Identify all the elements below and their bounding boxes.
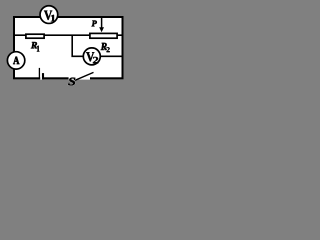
switch gap in bottom wire <box>69 76 90 79</box>
label R2 <box>101 43 107 50</box>
voltmeter V2 <box>83 48 100 65</box>
wire: potentiometer slider stem <box>101 17 103 29</box>
battery short thick plate <box>42 73 44 79</box>
circuit outer loop (wire rectangle) <box>14 17 123 78</box>
label S <box>68 78 75 86</box>
battery gap in bottom wire <box>40 76 42 79</box>
battery long thin plate <box>38 68 40 79</box>
ammeter A <box>7 52 24 69</box>
wire: V2 branch (down from junction then right to right border) <box>72 35 122 56</box>
label P <box>92 21 97 27</box>
resistor R1 <box>26 34 44 38</box>
ammeter A label <box>13 57 19 64</box>
voltmeter V1 <box>40 6 58 24</box>
resistor R2 (rheostat track) <box>90 33 117 38</box>
slider arrowhead <box>99 27 104 32</box>
label R1 <box>31 42 37 48</box>
voltmeter V1 label <box>44 11 52 20</box>
background <box>0 0 129 99</box>
wire: middle horizontal branch <box>14 34 122 36</box>
voltmeter V2 label <box>86 52 94 61</box>
switch S lever <box>75 72 94 80</box>
